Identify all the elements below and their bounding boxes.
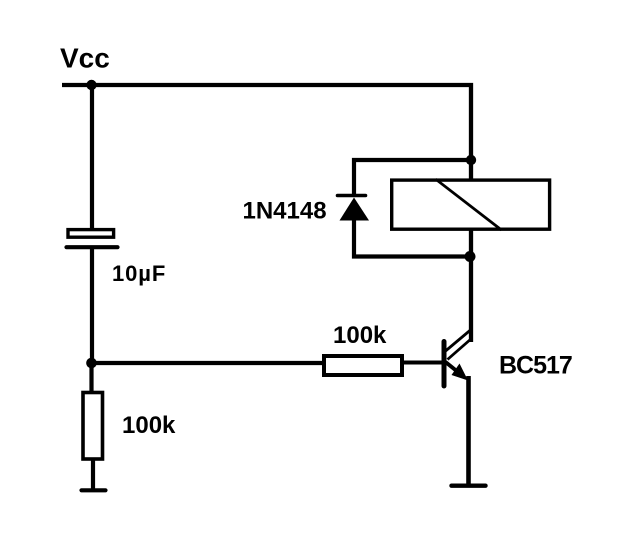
diode D1 cathode bar: [338, 194, 366, 198]
wire node B to R2: [92, 361, 324, 365]
capacitor C1 bottom plate: [67, 245, 118, 249]
svg-text:Vcc: Vcc: [60, 43, 110, 74]
wire R2 to Q1 base: [404, 361, 443, 365]
svg-text:100k: 100k: [122, 412, 176, 439]
transistor Q1 base bar: [442, 342, 447, 387]
resistor R2 body (100k horizontal): [324, 356, 402, 375]
wire R1 bottom lead: [91, 459, 95, 490]
node A: Vcc / C1 junction: [86, 80, 96, 90]
resistor R1 body (100k vertical): [83, 393, 103, 460]
wire Q1 emitter vertical: [466, 376, 471, 486]
relay K1 coil body: [392, 180, 550, 229]
wire D1 top: corner from diode to node C: [354, 160, 471, 197]
svg-text:10µF: 10µF: [112, 261, 166, 286]
transistor Q1 collector diagonal (lower stroke): [448, 339, 472, 360]
node B: C1 / R1 / R2 junction: [86, 358, 97, 369]
transistor Q1 collector diagonal (upper stroke): [446, 330, 471, 351]
capacitor C1 top plate: [68, 230, 114, 238]
relay K1 coil diagonal: [436, 179, 502, 230]
node D: relay bottom / D1 junction: [465, 251, 476, 262]
wire top rail from Vcc node to collector column: [62, 85, 471, 342]
wire R1 top lead: [89, 363, 93, 392]
wire C1 bottom lead: [90, 249, 94, 365]
wire D1 bottom: lead and run to node D: [354, 219, 471, 257]
svg-text:1N4148: 1N4148: [243, 198, 327, 225]
ground symbol at R1: [82, 488, 106, 492]
transistor Q1 emitter arrowhead: [452, 364, 469, 381]
svg-text:BC517: BC517: [499, 352, 572, 380]
ground symbol at Q1 emitter: [452, 484, 486, 488]
diode D1 anode triangle: [340, 198, 370, 221]
wire C1 top lead: [90, 85, 94, 230]
node C: relay top / D1 junction: [466, 155, 476, 165]
svg-text:100k: 100k: [333, 322, 387, 349]
transistor Q1 emitter stroke: [446, 362, 462, 375]
